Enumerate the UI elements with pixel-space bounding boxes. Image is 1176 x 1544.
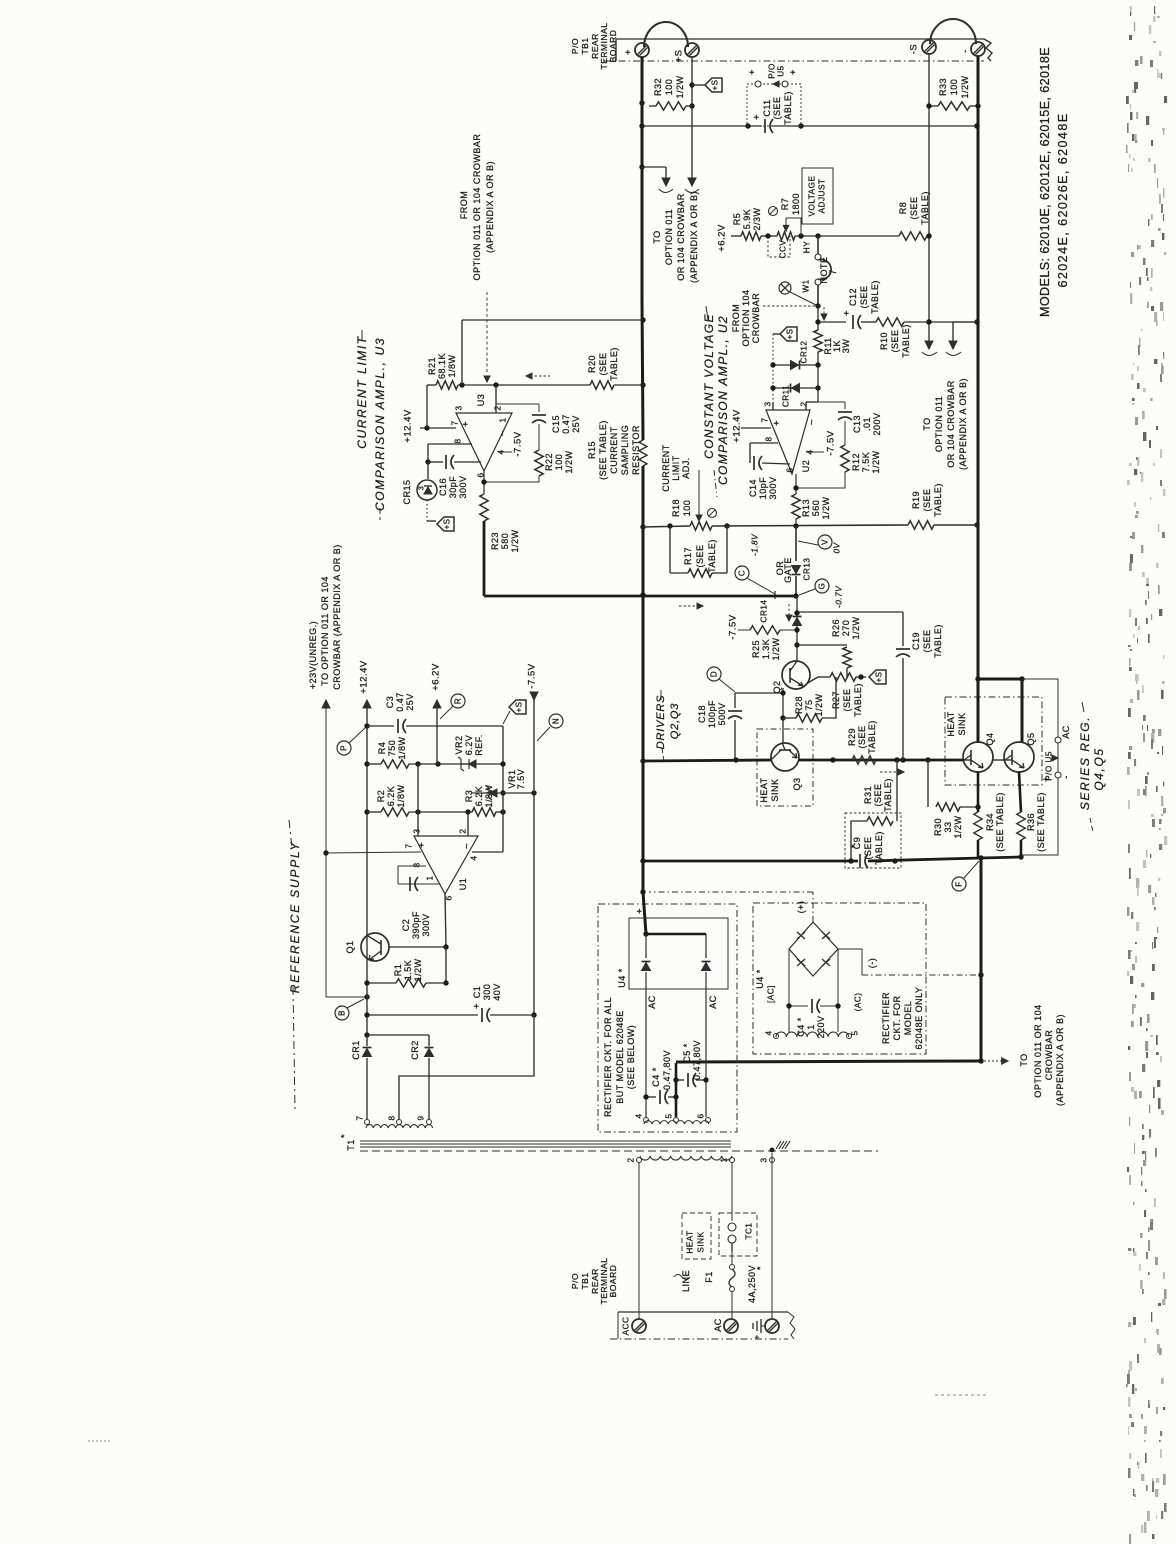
- wire emitter bottom link (heavy): [981, 857, 1021, 858]
- node F circle: [952, 877, 966, 891]
- svg-text:R15: R15: [587, 441, 597, 459]
- wire - rail to collectors (heavy): [978, 678, 1022, 681]
- resistor R30: [927, 760, 929, 807]
- svg-text:R31: R31: [863, 786, 873, 804]
- svg-text:HEAT: HEAT: [759, 777, 769, 802]
- svg-text:(SEE: (SEE: [772, 96, 782, 119]
- svg-text:Q2: Q2: [772, 680, 782, 693]
- svg-text:100: 100: [949, 79, 959, 96]
- node D circle: [707, 667, 721, 681]
- svg-text:R21: R21: [427, 357, 437, 375]
- resistor R3: [472, 808, 496, 816]
- svg-text:SAMPLING: SAMPLING: [620, 425, 630, 476]
- svg-text:C14: C14: [748, 479, 758, 497]
- svg-text:6: 6: [697, 1113, 706, 1118]
- wire U2 pin2 stub: [805, 402, 807, 410]
- svg-text:G: G: [818, 583, 827, 590]
- svg-text:+: +: [752, 114, 763, 120]
- arrow to crowbar (+S): [688, 178, 696, 186]
- wire bridge minus to heavy rail (dash-dot): [838, 949, 862, 975]
- bracket under crowbar arrows (right): [922, 352, 937, 356]
- resistor R36: [1019, 772, 1021, 812]
- resistor R29 (on bus): [852, 756, 876, 764]
- capacitor C15 + resistor R22 loop: [496, 403, 539, 405]
- dashed arrow (CR14): [788, 604, 790, 616]
- diode CR11: [773, 387, 818, 389]
- svg-text:+: +: [747, 69, 757, 75]
- svg-text:68.1K: 68.1K: [437, 353, 447, 379]
- svg-text:MODEL: MODEL: [903, 1001, 913, 1036]
- dashed arrow current direction (U3): [530, 375, 550, 377]
- svg-text:ADJUST: ADJUST: [818, 179, 827, 214]
- svg-text:R26: R26: [831, 619, 841, 637]
- terminal board TB1 (output, top): [616, 38, 984, 40]
- svg-text:CR14: CR14: [760, 600, 769, 623]
- thermal breaker TC1: [728, 1223, 736, 1231]
- svg-text:R34: R34: [985, 813, 995, 831]
- wire U2 pin7 supply: [741, 427, 771, 429]
- dashed arrow on y=595: [679, 605, 697, 607]
- svg-text:-7.5V: -7.5V: [728, 614, 739, 639]
- svg-text:750: 750: [387, 740, 397, 757]
- wire heavy bottom y=1061: [676, 1061, 981, 1062]
- svg-text:AC: AC: [708, 995, 718, 1009]
- transformer T1 secondary 7-8-9 winding: [366, 1125, 433, 1128]
- svg-text:+12.4V: +12.4V: [359, 660, 370, 694]
- svg-text:6: 6: [445, 895, 454, 900]
- dotted arrow TO OPTION (bottom): [984, 1060, 1002, 1062]
- svg-text:~: ~: [498, 430, 509, 436]
- svg-text:300V: 300V: [421, 913, 431, 936]
- svg-text:C3: C3: [385, 696, 395, 709]
- svg-text:SINK: SINK: [957, 712, 967, 735]
- svg-text:+23V(UNREG.): +23V(UNREG.): [308, 621, 318, 689]
- capacitor C3: [367, 725, 394, 727]
- wire center tap heavy to bottom bus: [675, 1063, 678, 1117]
- svg-text:1/2W: 1/2W: [564, 450, 574, 473]
- svg-text:3: 3: [455, 405, 464, 410]
- heat sink box (TC1): [682, 1213, 711, 1259]
- svg-text:R25: R25: [751, 640, 761, 658]
- svg-text:C12: C12: [848, 288, 858, 306]
- wire U2 output: [795, 474, 797, 494]
- svg-text:2: 2: [627, 1157, 636, 1162]
- wire CR ladder left leg: [772, 334, 774, 410]
- transistor Q4: [963, 742, 993, 772]
- resistor R1: [367, 982, 396, 984]
- bracket under crowbar arrows: [659, 189, 673, 193]
- capacitor C5: [676, 1079, 684, 1081]
- transistor Q5: [1004, 742, 1034, 772]
- svg-text:(SEE TABLE): (SEE TABLE): [1036, 792, 1046, 852]
- resistor R23: [480, 494, 488, 521]
- svg-text:OR 104 CROWBAR: OR 104 CROWBAR: [676, 193, 686, 281]
- svg-text:0.47: 0.47: [561, 414, 571, 434]
- svg-text:0.47,80V: 0.47,80V: [692, 1040, 702, 1080]
- svg-text:(-): (-): [867, 958, 877, 969]
- wire U3 feedback top y=320: [462, 319, 643, 321]
- svg-text:RECTIFIER: RECTIFIER: [881, 992, 891, 1044]
- label 3 (pin): [770, 1158, 775, 1163]
- svg-text:0.47,80V: 0.47,80V: [662, 1050, 672, 1090]
- svg-text:1: 1: [499, 417, 508, 422]
- svg-text:500V: 500V: [717, 702, 727, 725]
- svg-text:P/O: P/O: [768, 63, 777, 79]
- svg-text:C4 *: C4 *: [651, 1067, 661, 1087]
- terminal -S screw: [922, 40, 936, 54]
- svg-text:+: +: [753, 1334, 762, 1339]
- diode CR1: [366, 1035, 368, 1046]
- svg-text:TO OPTION 011 OR 104: TO OPTION 011 OR 104: [320, 576, 330, 686]
- svg-text:TABLE): TABLE): [867, 720, 877, 754]
- op-amp U3: [456, 413, 512, 471]
- svg-text:R30: R30: [933, 818, 943, 836]
- svg-text:100: 100: [664, 79, 674, 96]
- svg-text:R3: R3: [464, 790, 474, 803]
- wire pin1 to TC1/fuse: [731, 1163, 733, 1221]
- svg-text:(SEE: (SEE: [890, 329, 900, 352]
- wire U2 pin3 stub: [772, 402, 774, 410]
- svg-text:6.2K: 6.2K: [474, 786, 484, 807]
- svg-text:1: 1: [806, 1024, 816, 1030]
- svg-text:RESISTOR: RESISTOR: [631, 425, 641, 475]
- wire node A vertical x=818: [817, 306, 819, 330]
- wire -7.5V rail: [533, 692, 535, 1015]
- svg-text:CCV: CCV: [779, 240, 788, 259]
- svg-text:8: 8: [413, 862, 422, 867]
- svg-text:1/8W: 1/8W: [396, 784, 406, 807]
- svg-text:(SEE: (SEE: [842, 688, 852, 711]
- svg-text:300V: 300V: [458, 475, 468, 498]
- svg-text:LINE: LINE: [681, 1270, 691, 1292]
- svg-text:+: +: [623, 49, 633, 55]
- resistor R20: [590, 381, 614, 389]
- svg-text:+S: +S: [786, 328, 795, 339]
- svg-text:OPTION 104: OPTION 104: [741, 289, 751, 346]
- wire loop -S to -: [930, 19, 976, 44]
- wire U3 pin7 supply: [420, 427, 456, 429]
- resistor R11: [814, 330, 822, 352]
- svg-text:R19: R19: [911, 491, 921, 509]
- node R circle: [451, 694, 465, 708]
- svg-text:R: R: [454, 698, 463, 704]
- svg-text:C18: C18: [697, 705, 707, 723]
- svg-text:(SEE: (SEE: [857, 725, 867, 748]
- svg-text:OPTION 011 OR 104: OPTION 011 OR 104: [1033, 1004, 1043, 1097]
- node N circle: [549, 714, 563, 728]
- svg-text:5: 5: [851, 1030, 860, 1035]
- svg-text:0V: 0V: [833, 541, 842, 553]
- svg-text:C1: C1: [472, 986, 482, 999]
- diode CR14: [796, 596, 798, 614]
- svg-text:ACC: ACC: [622, 1317, 631, 1336]
- heat sink box Q4 Q5: [945, 697, 1042, 785]
- svg-text:OR 104 CROWBAR: OR 104 CROWBAR: [946, 380, 956, 468]
- svg-text:TABLE): TABLE): [901, 324, 911, 358]
- svg-text:OPTION 011: OPTION 011: [664, 209, 674, 265]
- svg-text:CURRENT: CURRENT: [609, 426, 619, 474]
- svg-text:(SEE: (SEE: [859, 285, 869, 308]
- svg-text:62048E ONLY: 62048E ONLY: [914, 987, 924, 1050]
- capacitor C4 (left): [646, 1096, 656, 1098]
- svg-text:U2: U2: [801, 460, 811, 473]
- svg-text:R13: R13: [801, 499, 811, 517]
- wire heavy y=595 (U3 out to OR gate): [483, 521, 486, 596]
- svg-text:100: 100: [554, 454, 564, 471]
- capacitor C11: [764, 119, 766, 133]
- svg-text:CR2: CR2: [410, 1040, 420, 1060]
- svg-text:T1: T1: [346, 1139, 356, 1151]
- svg-text:P/O: P/O: [570, 38, 580, 54]
- svg-text:TO: TO: [1019, 1053, 1029, 1066]
- svg-text:C2: C2: [401, 919, 411, 932]
- resistor R4: [381, 760, 409, 768]
- capacitor C2 comp loop: [398, 865, 426, 867]
- svg-text:~: ~: [807, 419, 818, 425]
- diode U4 right: [705, 934, 707, 958]
- resistor R27 + emitter: [806, 677, 818, 684]
- svg-text:Q4,Q5: Q4,Q5: [1092, 747, 1106, 790]
- svg-text:R4: R4: [377, 742, 387, 755]
- svg-text:TABLE): TABLE): [933, 483, 943, 517]
- svg-text:R22: R22: [544, 453, 554, 471]
- wire loop + to +S: [644, 22, 688, 47]
- capacitor C9 (on bottom bus): [859, 854, 861, 868]
- svg-text:P/O: P/O: [570, 1273, 580, 1289]
- svg-text:+: +: [461, 421, 472, 427]
- svg-text:10pF: 10pF: [758, 477, 768, 500]
- flag +S (ref supply): [509, 700, 526, 714]
- svg-text:580: 580: [500, 533, 510, 550]
- svg-text:CKT. FOR: CKT. FOR: [892, 995, 902, 1040]
- flag +S (near R32): [692, 84, 705, 86]
- svg-text:Q1: Q1: [345, 940, 355, 953]
- svg-text:+: +: [1041, 776, 1051, 782]
- svg-text:25V: 25V: [571, 415, 581, 433]
- svg-text:V: V: [821, 539, 830, 545]
- wire pin2 to ACC: [638, 1163, 640, 1319]
- resistor R2: [381, 808, 409, 816]
- wire + output bus (heavy vertical): [641, 57, 644, 300]
- svg-text:C16: C16: [438, 478, 448, 496]
- svg-text:AC: AC: [1061, 725, 1071, 739]
- wire U3 pin2 stub: [495, 385, 497, 413]
- svg-text:TABLE): TABLE): [707, 539, 717, 573]
- svg-text:2/3W: 2/3W: [752, 207, 762, 230]
- resistor R25: [738, 629, 750, 631]
- svg-text:390pF: 390pF: [411, 911, 421, 939]
- wire heavy L to rectifier minus: [980, 858, 983, 1061]
- svg-text:TABLE): TABLE): [853, 683, 863, 717]
- svg-text:.01: .01: [862, 417, 872, 431]
- resistor R5: [741, 232, 761, 240]
- transistor Q1: [361, 933, 389, 961]
- svg-text:5: 5: [665, 1113, 674, 1118]
- svg-text:C11: C11: [762, 99, 772, 116]
- resistor R19: [908, 521, 934, 529]
- svg-text:+6.2V: +6.2V: [717, 224, 728, 252]
- svg-text:100pF: 100pF: [707, 700, 717, 728]
- wire bus into rectifier (heavy): [643, 892, 646, 934]
- svg-text:75: 75: [804, 699, 814, 710]
- svg-text:W1: W1: [802, 279, 811, 292]
- diode CR13 OR gate: [795, 526, 797, 561]
- wire base bus to Q4 Q5: [963, 759, 971, 761]
- wire bottom bus y=861 (heavy): [643, 860, 858, 863]
- wire U3 input line y=385: [427, 384, 436, 386]
- winding T1 (62048E secondary): [776, 1032, 849, 1037]
- svg-text:REF.: REF.: [474, 734, 484, 756]
- chassis squiggle on core line: [770, 1148, 775, 1153]
- svg-text:8: 8: [454, 438, 463, 443]
- pot wiper current limit adj: [698, 470, 700, 515]
- capacitor C13: [818, 401, 845, 403]
- svg-text:CR15: CR15: [402, 479, 412, 504]
- svg-text:+: +: [772, 420, 783, 426]
- svg-text:200V: 200V: [872, 412, 882, 435]
- svg-text:CR11: CR11: [782, 385, 791, 407]
- svg-text:1/8W: 1/8W: [447, 354, 457, 377]
- jumper W1: [817, 236, 819, 254]
- svg-text:3W: 3W: [841, 339, 851, 354]
- resistor R8: [899, 232, 927, 240]
- svg-text:*: *: [756, 1266, 767, 1270]
- label LINE: [674, 1275, 690, 1280]
- svg-text:1/2W: 1/2W: [960, 75, 970, 98]
- wire U1 pin7 supply from +23V: [326, 852, 421, 853]
- node C circle: [735, 566, 749, 580]
- svg-text:R2: R2: [376, 790, 386, 803]
- svg-text:F1: F1: [704, 1271, 714, 1283]
- svg-text:+6.2V: +6.2V: [431, 663, 442, 691]
- arrow -S to crowbar: [928, 322, 930, 341]
- svg-text:+: +: [842, 310, 853, 316]
- svg-text:AC: AC: [713, 1318, 723, 1332]
- svg-text:AC: AC: [647, 995, 657, 1009]
- svg-text:7: 7: [356, 1115, 365, 1120]
- svg-text:CROWBAR (APPENDIX A OR B): CROWBAR (APPENDIX A OR B): [332, 544, 342, 690]
- transistor Q3: [771, 743, 799, 771]
- svg-text:6: 6: [786, 467, 795, 472]
- lamp symbol: [779, 282, 791, 294]
- svg-text:TB1: TB1: [580, 37, 590, 54]
- svg-text:7.5K: 7.5K: [861, 452, 871, 473]
- svg-text:+S: +S: [443, 518, 452, 529]
- svg-text:7: 7: [828, 269, 838, 275]
- svg-text:1: 1: [720, 1157, 729, 1162]
- zener VR2 6.2V REF: [438, 763, 503, 765]
- svg-text:2: 2: [459, 828, 468, 833]
- svg-text:R8: R8: [898, 202, 908, 215]
- svg-text:6.2V: 6.2V: [464, 735, 474, 756]
- svg-text:7: 7: [451, 420, 460, 425]
- svg-text:4: 4: [470, 855, 479, 860]
- svg-text:R1: R1: [393, 964, 403, 977]
- svg-text:(SEE: (SEE: [922, 488, 932, 511]
- svg-text:(SEE: (SEE: [695, 544, 705, 567]
- svg-text:+12.4V: +12.4V: [732, 409, 743, 443]
- svg-text:HY: HY: [803, 241, 812, 253]
- svg-text:(SEE: (SEE: [922, 629, 932, 652]
- svg-text:R29: R29: [847, 728, 857, 746]
- svg-text:+12.4V: +12.4V: [403, 409, 414, 443]
- svg-text:OPTION 011: OPTION 011: [934, 396, 944, 452]
- svg-text:40V: 40V: [492, 983, 502, 1001]
- svg-text:3: 3: [413, 828, 422, 833]
- terminal + screw: [635, 43, 649, 57]
- resistor R12: [841, 445, 849, 472]
- resistor R34: [977, 772, 980, 812]
- svg-text:GATE: GATE: [783, 557, 793, 583]
- svg-text:-7.5V: -7.5V: [826, 430, 837, 455]
- svg-text:TABLE): TABLE): [883, 778, 893, 812]
- connector P/O U5 (series reg): [1021, 679, 1058, 855]
- op-amp U2: [766, 410, 810, 474]
- box rectifier for 62048E only (dashed): [753, 903, 926, 1054]
- svg-text:7: 7: [405, 843, 414, 848]
- svg-text:Q2,Q3: Q2,Q3: [669, 703, 681, 739]
- svg-text:1/2W: 1/2W: [413, 958, 423, 981]
- box VOLTAGE ADJUST: [802, 168, 833, 224]
- svg-text:-7.5V: -7.5V: [527, 663, 538, 688]
- svg-text:*: *: [340, 1134, 351, 1138]
- svg-text:-1.8V: -1.8V: [751, 533, 760, 556]
- svg-text:RECTIFIER CKT. FOR ALL: RECTIFIER CKT. FOR ALL: [603, 997, 613, 1117]
- svg-text:Q5: Q5: [1026, 732, 1036, 745]
- resistor R10: [876, 318, 904, 326]
- svg-text:BUT MODEL 62048E: BUT MODEL 62048E: [615, 1010, 625, 1104]
- arrow to crowbar (right): [953, 321, 977, 323]
- svg-text:+S: +S: [674, 50, 685, 63]
- svg-text:D: D: [710, 671, 719, 677]
- terminal ACC screw: [632, 1319, 646, 1333]
- svg-text:1/2W: 1/2W: [675, 75, 685, 98]
- svg-text:300: 300: [482, 984, 492, 1001]
- transformer T1 primary winding: [640, 1156, 732, 1160]
- capacitor C12: [818, 321, 846, 323]
- node B circle: [335, 1006, 349, 1020]
- svg-text:TO: TO: [652, 230, 662, 243]
- wire center tap pin8 to -7.5 rail: [399, 1015, 534, 1119]
- svg-text:R17: R17: [683, 547, 693, 565]
- capacitor C18: [734, 693, 736, 708]
- svg-text:1/2W: 1/2W: [953, 815, 963, 838]
- svg-text:1.5K: 1.5K: [403, 960, 413, 981]
- svg-text:COMPARISON AMPL., U3: COMPARISON AMPL., U3: [373, 337, 387, 511]
- svg-text:560: 560: [811, 500, 821, 517]
- resistor R31 + capacitor C9 box: [896, 760, 898, 821]
- svg-text:CURRENT LIMIT: CURRENT LIMIT: [355, 335, 369, 449]
- wire - rail (heavy): [977, 56, 980, 679]
- svg-text:C19: C19: [911, 632, 921, 650]
- svg-text:(APPENDIX A OR B): (APPENDIX A OR B): [485, 161, 495, 253]
- svg-text:R7: R7: [780, 198, 790, 211]
- svg-text:HEAT: HEAT: [686, 1230, 695, 1253]
- svg-text:TABLE): TABLE): [783, 91, 793, 125]
- svg-text:270: 270: [841, 620, 851, 637]
- svg-text:(SEE TABLE): (SEE TABLE): [598, 420, 608, 480]
- svg-text:+S: +S: [875, 671, 884, 682]
- svg-text:(SEE: (SEE: [598, 352, 608, 375]
- transformer T1 core: [360, 1140, 731, 1142]
- dashed arrow down (crowbar node): [823, 307, 825, 315]
- svg-text:CR12: CR12: [800, 341, 809, 364]
- wire driver emitter bus y=760 (heavy): [643, 760, 771, 761]
- fuse F1: [731, 1252, 733, 1264]
- svg-text:5.9K: 5.9K: [742, 209, 752, 230]
- svg-text:FROM: FROM: [459, 191, 469, 220]
- wire Q2 base chain: [735, 692, 783, 694]
